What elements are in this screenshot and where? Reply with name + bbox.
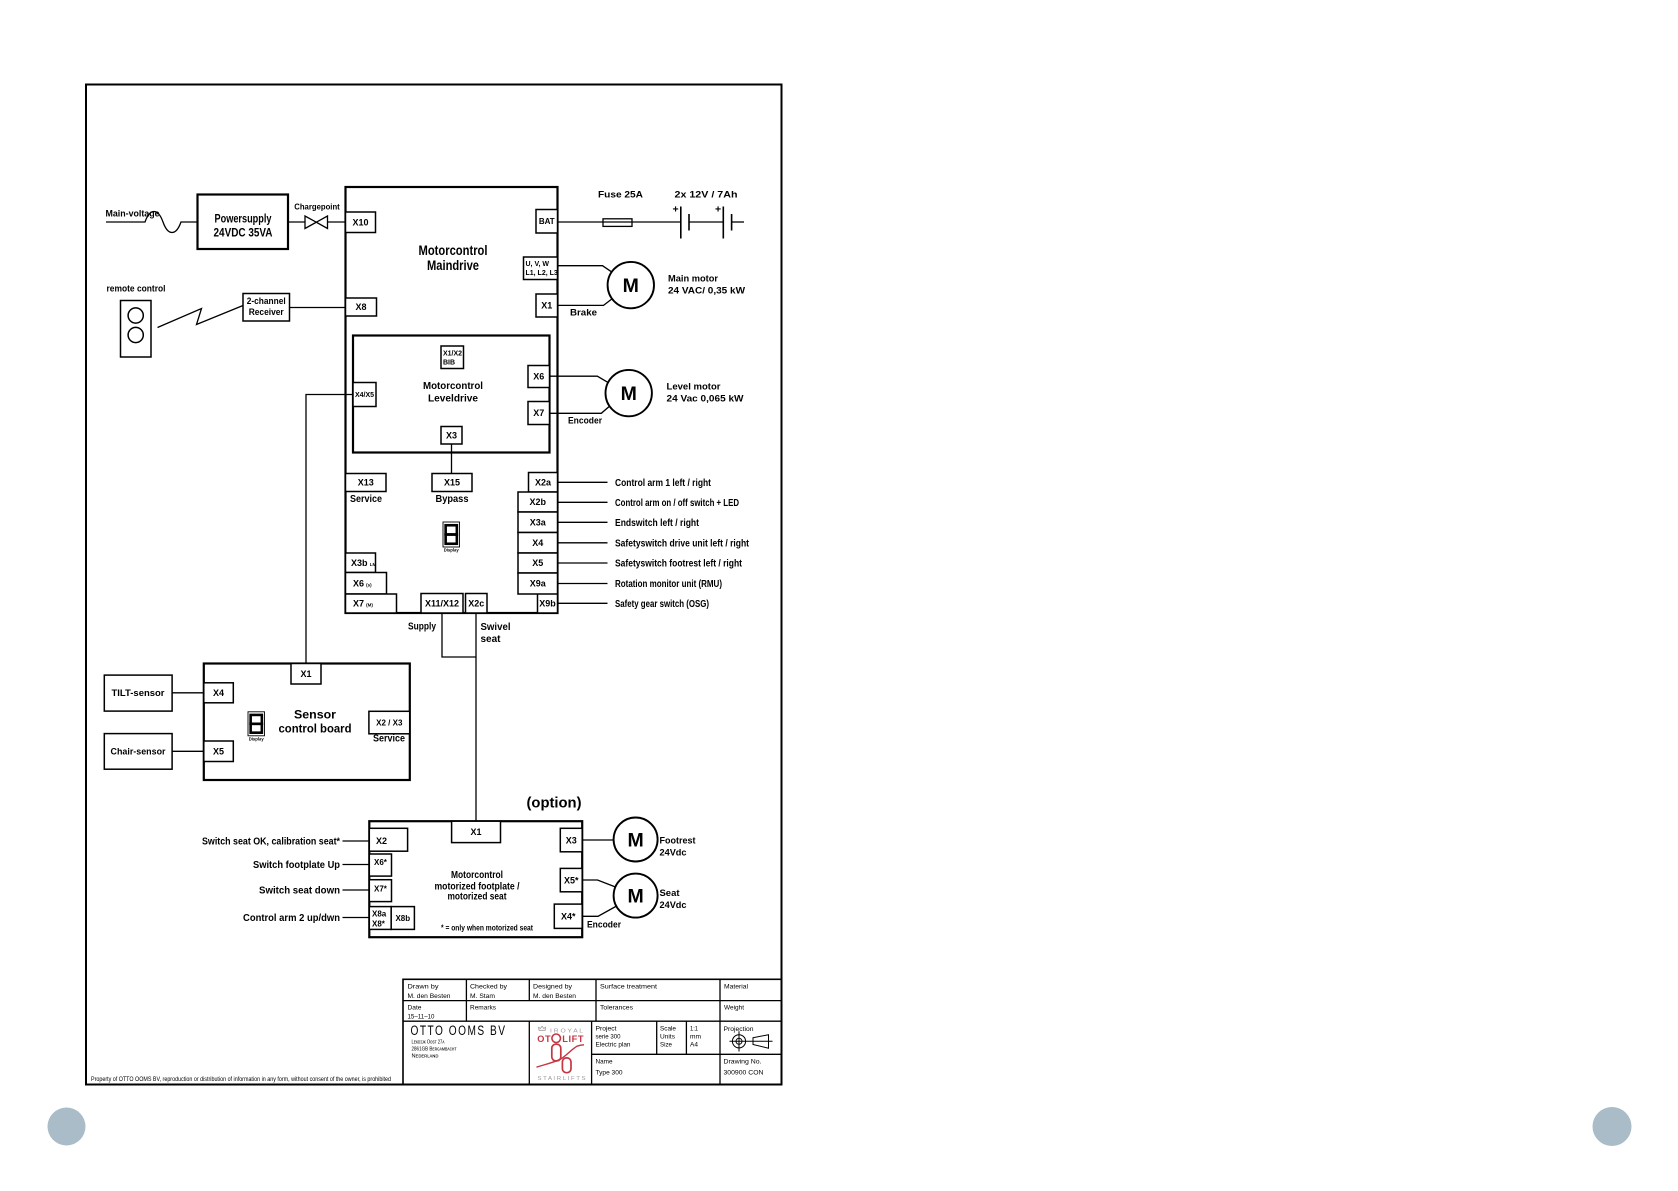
connector X11/X12	[421, 594, 463, 614]
wire stub	[343, 840, 370, 842]
svg-text:X6: X6	[533, 372, 544, 382]
connector X7* option	[369, 880, 391, 902]
svg-text:Remarks: Remarks	[470, 1005, 497, 1012]
wire to label Endswitch left / right	[558, 521, 608, 523]
motor M2 level motor	[606, 370, 652, 416]
wire main-voltage with sine	[106, 212, 198, 233]
svg-text:Switch footplate Up: Switch footplate Up	[253, 859, 340, 871]
connector X4 maindrive	[518, 533, 558, 554]
svg-text:X3: X3	[566, 835, 577, 845]
svg-text:Receiver: Receiver	[249, 307, 285, 317]
svg-text:BAT: BAT	[539, 217, 555, 226]
svg-text:Units: Units	[660, 1034, 676, 1041]
svg-text:X11/X12: X11/X12	[425, 598, 459, 608]
svg-text:Control arm 2 up/dwn: Control arm 2 up/dwn	[243, 912, 340, 924]
svg-text:Chargepoint: Chargepoint	[294, 202, 340, 212]
connector X1 sensor board	[291, 664, 321, 685]
svg-text:seat: seat	[481, 633, 501, 645]
svg-text:Display: Display	[444, 548, 460, 553]
border frame	[86, 85, 782, 1085]
svg-text:Swivel: Swivel	[481, 621, 511, 633]
svg-text:X8b: X8b	[395, 914, 410, 923]
wire stub	[343, 889, 370, 891]
svg-text:Electric plan: Electric plan	[596, 1042, 631, 1049]
svg-text:Designed by: Designed by	[533, 984, 573, 991]
svg-text:X3a: X3a	[530, 517, 547, 527]
svg-text:X10: X10	[352, 217, 368, 227]
svg-text:Switch seat OK, calibration se: Switch seat OK, calibration seat*	[202, 836, 341, 848]
svg-text:LIFT: LIFT	[562, 1034, 584, 1044]
svg-text:X2 / X3: X2 / X3	[376, 718, 403, 727]
connector X4/X5	[353, 383, 376, 407]
connector X13	[346, 474, 387, 492]
svg-text:OTTO OOMS BV: OTTO OOMS BV	[411, 1023, 507, 1038]
connector X3b	[346, 553, 376, 573]
wire X3 to footrest motor	[582, 839, 613, 841]
svg-text:Safetyswitch drive unit left /: Safetyswitch drive unit left / right	[615, 537, 749, 549]
svg-text:Motorcontrol: Motorcontrol	[423, 380, 483, 392]
svg-text:X5: X5	[213, 746, 224, 756]
svg-text:24 Vac 0,065 kW: 24 Vac 0,065 kW	[667, 394, 744, 405]
svg-text:U, V, W: U, V, W	[526, 261, 550, 268]
svg-text:mm: mm	[690, 1034, 701, 1041]
svg-text:L1, L2, L3: L1, L2, L3	[526, 270, 558, 277]
svg-text:X2c: X2c	[468, 598, 484, 608]
connector X2a	[529, 473, 558, 493]
connector X8a/X8* option	[369, 907, 391, 930]
svg-text:X1: X1	[541, 301, 552, 311]
svg-text:LM: LM	[370, 562, 377, 567]
svg-text:M: M	[621, 383, 637, 405]
wire swivel seat X2c down to option box	[475, 613, 477, 821]
svg-text:Display: Display	[249, 737, 265, 742]
svg-text:24VDC 35VA: 24VDC 35VA	[214, 228, 273, 240]
wire X4* encoder to seat motor	[582, 906, 617, 917]
motorcontrol motorized footplate / seat U4	[369, 821, 582, 937]
svg-text:* = only when motorized seat: * = only when motorized seat	[441, 924, 533, 933]
svg-text:X15: X15	[444, 478, 460, 488]
connector X2c	[466, 594, 488, 614]
svg-text:M. Stam: M. Stam	[470, 993, 495, 1000]
svg-text:M: M	[627, 830, 643, 852]
connector X3 option	[560, 828, 582, 852]
connector X15	[432, 474, 472, 492]
svg-text:Sensor: Sensor	[294, 708, 336, 722]
wire X6 to level motor	[550, 376, 610, 383]
svg-text:Checked by: Checked by	[470, 984, 508, 991]
svg-text:+: +	[673, 204, 679, 216]
wire chargepoint to X10	[328, 221, 346, 223]
svg-text:Footrest: Footrest	[660, 836, 697, 847]
svg-text:X4*: X4*	[561, 911, 576, 921]
wire stub	[343, 864, 370, 866]
connector X8	[346, 298, 377, 316]
connector X3 leveldrive	[441, 427, 462, 445]
svg-text:2x 12V / 7Ah: 2x 12V / 7Ah	[675, 190, 738, 201]
svg-text:control board: control board	[279, 722, 352, 736]
svg-text:Main motor: Main motor	[668, 274, 718, 285]
svg-text:M. den Besten: M. den Besten	[533, 993, 576, 1000]
svg-text:Scale: Scale	[660, 1026, 676, 1033]
decorative dot left	[48, 1108, 86, 1146]
svg-text:serie 300: serie 300	[596, 1034, 621, 1041]
projection symbol	[730, 1031, 773, 1051]
motorcontrol maindrive U1	[346, 187, 558, 613]
svg-text:Drawn by: Drawn by	[408, 984, 440, 991]
connector X9b	[538, 594, 558, 614]
title block texts	[408, 984, 764, 1077]
svg-text:1:1: 1:1	[690, 1026, 698, 1033]
wire X3 to X15	[451, 444, 453, 474]
connector X7 maindrive	[346, 594, 397, 613]
svg-text:Fuse 25A: Fuse 25A	[598, 190, 643, 201]
svg-text:Bypass: Bypass	[436, 493, 469, 505]
svg-text:Leveldrive: Leveldrive	[428, 393, 478, 405]
wire BAT to fuse to battery	[558, 221, 681, 223]
svg-text:Date: Date	[408, 1005, 422, 1012]
svg-text:Main-voltage: Main-voltage	[106, 209, 160, 220]
wire to label Control arm on / off switch + LED	[558, 501, 608, 503]
motor M4 seat	[614, 874, 658, 918]
svg-text:24 VAC/ 0,35 kW: 24 VAC/ 0,35 kW	[668, 286, 745, 297]
svg-text:TILT-sensor: TILT-sensor	[112, 688, 165, 699]
motor M1 main motor	[608, 262, 654, 308]
wire to label Control arm 1 left / right	[558, 481, 608, 483]
wire X4/X5 to sensor board X1	[306, 395, 353, 664]
power supply PSU 24VDC 35VA	[198, 195, 289, 250]
svg-text:X8: X8	[355, 302, 366, 312]
svg-text:X4/X5: X4/X5	[355, 392, 374, 399]
svg-text:X2b: X2b	[529, 497, 546, 507]
svg-text:Seat: Seat	[660, 888, 681, 899]
connector U,V,W L1,L2,L3	[524, 257, 558, 280]
connector X1/X2 BIB	[441, 346, 464, 369]
connector X4* option	[554, 904, 582, 928]
svg-text:X2a: X2a	[535, 477, 552, 487]
svg-text:remote control: remote control	[107, 284, 166, 295]
connector BAT	[536, 210, 558, 234]
wire U,V,W to main motor	[558, 266, 613, 273]
svg-text:Safety gear switch (OSG): Safety gear switch (OSG)	[615, 598, 709, 610]
svg-text:X3b: X3b	[351, 558, 368, 568]
svg-text:Lᴇᴋᴅɪᴊᴋ Oᴏsᴛ 27ᴀ: Lᴇᴋᴅɪᴊᴋ Oᴏsᴛ 27ᴀ	[412, 1040, 445, 1046]
wire TILT-sensor to X4	[172, 692, 204, 694]
svg-text:(option): (option)	[527, 795, 582, 812]
connector X2b	[518, 492, 558, 512]
svg-text:(M): (M)	[366, 603, 373, 608]
svg-text:Service: Service	[373, 733, 405, 745]
svg-text:OT: OT	[537, 1034, 551, 1044]
svg-text:Project: Project	[596, 1026, 617, 1033]
connector X2 option	[369, 828, 407, 851]
wire X5* to seat motor	[582, 880, 617, 888]
connector X3a	[518, 512, 558, 533]
svg-text:Control arm 1 left / right: Control arm 1 left / right	[615, 477, 711, 489]
svg-text:+: +	[715, 204, 721, 216]
svg-text:Service: Service	[350, 493, 382, 505]
connector X5* option	[560, 868, 582, 891]
svg-text:Brake: Brake	[570, 308, 597, 319]
svg-text:X6*: X6*	[374, 858, 388, 867]
svg-text:X9b: X9b	[539, 598, 556, 608]
svg-text:Type 300: Type 300	[596, 1070, 623, 1077]
wire to label Safetyswitch drive unit left / right	[558, 542, 608, 544]
svg-text:Endswitch left / right: Endswitch left / right	[615, 517, 699, 529]
svg-text:15–11–10: 15–11–10	[408, 1014, 435, 1021]
wire supply X11/X12	[442, 613, 476, 657]
svg-text:X1: X1	[471, 827, 482, 837]
connector X6 maindrive	[346, 573, 387, 595]
svg-text:Safetyswitch footrest left / r: Safetyswitch footrest left / right	[615, 558, 742, 570]
svg-text:Rotation monitor unit (RMU): Rotation monitor unit (RMU)	[615, 578, 722, 590]
wire X7 encoder to level motor	[550, 405, 612, 414]
Otolift logo	[537, 1026, 586, 1082]
svg-text:Control arm on / off switch +: Control arm on / off switch + LED	[615, 497, 739, 509]
display 7-segment maindrive	[443, 522, 460, 547]
svg-text:Motorcontrol: Motorcontrol	[451, 869, 503, 881]
motorcontrol leveldrive U2	[353, 336, 550, 453]
wire to label Safety gear switch (OSG)	[558, 602, 608, 604]
svg-text:2-channel: 2-channel	[247, 296, 286, 306]
svg-text:Material: Material	[724, 984, 748, 991]
svg-text:X4: X4	[213, 688, 224, 698]
svg-text:M: M	[623, 275, 639, 297]
wireless zigzag link	[158, 306, 244, 328]
title block table	[403, 979, 782, 1084]
svg-text:Level motor: Level motor	[667, 382, 721, 393]
connector X2/X3 sensor board	[369, 711, 410, 734]
svg-text:M. den Besten: M. den Besten	[408, 993, 451, 1000]
fuse F1 25A	[603, 219, 632, 227]
svg-text:Surface treatment: Surface treatment	[600, 984, 657, 991]
wire stub	[343, 917, 370, 919]
svg-text:BIB: BIB	[443, 360, 455, 367]
connector X8b option	[391, 907, 414, 930]
display 7-segment sensor board	[248, 712, 265, 736]
svg-text:X8a: X8a	[372, 910, 387, 919]
svg-text:X1/X2: X1/X2	[443, 351, 462, 358]
decorative dot right	[1593, 1107, 1632, 1146]
connector X1 option	[452, 821, 501, 842]
sensor control board U3	[204, 664, 410, 781]
wire Chair-sensor to X5	[172, 750, 204, 752]
svg-text:X9a: X9a	[530, 579, 547, 589]
connector X9a	[518, 573, 558, 594]
wire PSU to chargepoint	[288, 221, 305, 223]
svg-text:Drawing No.: Drawing No.	[724, 1059, 762, 1066]
connector X10	[346, 212, 376, 233]
svg-text:Nᴇᴅᴇʀʟᴀɴᴅ: Nᴇᴅᴇʀʟᴀɴᴅ	[412, 1054, 439, 1060]
2-channel receiver	[243, 294, 290, 322]
svg-text:X5*: X5*	[564, 875, 579, 885]
svg-text:X2: X2	[376, 836, 387, 846]
svg-text:X5: X5	[532, 558, 543, 568]
svg-text:X1: X1	[300, 669, 311, 679]
TILT-sensor	[104, 675, 172, 711]
connector X6* option	[369, 854, 391, 876]
connector X5 sensor board	[204, 741, 234, 762]
svg-text:Switch seat down: Switch seat down	[259, 885, 340, 897]
connector X5 maindrive	[518, 553, 558, 573]
svg-text:X13: X13	[358, 478, 374, 488]
svg-text:motorized seat: motorized seat	[448, 891, 507, 903]
wire X1 brake to main motor	[558, 299, 613, 306]
svg-text:Weight: Weight	[724, 1005, 744, 1012]
connector X1 maindrive	[536, 294, 558, 317]
wire receiver to X8	[290, 307, 346, 309]
svg-text:X8*: X8*	[372, 920, 386, 929]
svg-text:X7: X7	[353, 599, 364, 609]
connector X6 leveldrive	[528, 366, 550, 388]
svg-text:Encoder: Encoder	[587, 920, 621, 931]
svg-text:Size: Size	[660, 1042, 672, 1049]
svg-text:X7*: X7*	[374, 885, 388, 894]
svg-text:X6: X6	[353, 578, 364, 588]
svg-text:2861GB Bᴇʀɢᴀᴍʙᴀᴄʜᴛ: 2861GB Bᴇʀɢᴀᴍʙᴀᴄʜᴛ	[412, 1047, 458, 1053]
svg-text:Encoder: Encoder	[568, 416, 602, 427]
wire to label Rotation monitor unit (RMU)	[558, 583, 608, 585]
svg-text:A4: A4	[690, 1042, 698, 1049]
svg-text:Maindrive: Maindrive	[427, 258, 479, 273]
svg-text:300900 CON: 300900 CON	[724, 1070, 764, 1077]
svg-text:Motorcontrol: Motorcontrol	[419, 243, 488, 258]
svg-text:Supply: Supply	[408, 621, 436, 633]
Chair-sensor	[104, 734, 172, 770]
svg-text:X7: X7	[533, 408, 544, 418]
svg-text:Tolerances: Tolerances	[600, 1005, 634, 1012]
svg-text:X3: X3	[446, 430, 457, 440]
svg-text:(s): (s)	[366, 582, 372, 587]
svg-text:Powersupply: Powersupply	[215, 214, 272, 226]
svg-text:24Vdc: 24Vdc	[660, 900, 687, 911]
svg-text:24Vdc: 24Vdc	[660, 848, 687, 859]
svg-text:X4: X4	[532, 538, 543, 548]
svg-text:S T A I R L I F T S: S T A I R L I F T S	[538, 1076, 586, 1082]
connector X4 sensor board	[204, 683, 234, 703]
svg-text:Name: Name	[596, 1059, 613, 1066]
motor M3 footrest	[614, 818, 658, 862]
svg-text:Chair-sensor: Chair-sensor	[111, 747, 166, 758]
connector X7 leveldrive	[528, 402, 550, 425]
svg-text:M: M	[627, 886, 643, 908]
wire to label Safetyswitch footrest left / right	[558, 562, 608, 564]
svg-text:Property of OTTO OOMS BV, repr: Property of OTTO OOMS BV, reproduction o…	[91, 1076, 391, 1083]
